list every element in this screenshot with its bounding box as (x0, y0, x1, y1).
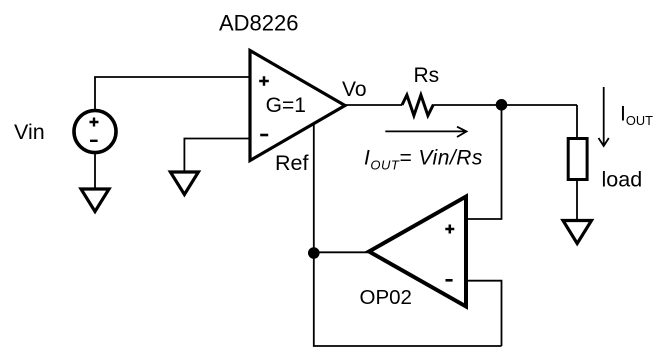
pin - (U2) (446, 279, 453, 282)
current direction arrow (385, 127, 466, 137)
svg-text:G=1: G=1 (266, 94, 306, 117)
ground (563, 221, 592, 244)
wire (94, 153, 96, 188)
label AD8226 (219, 10, 299, 35)
label IOUT (620, 102, 653, 129)
pin Ref label (275, 151, 308, 175)
svg-text:AD8226: AD8226 (219, 10, 299, 35)
wire (314, 251, 368, 253)
label load (602, 168, 643, 192)
svg-text:Vo: Vo (342, 78, 367, 101)
node Vo label (342, 78, 367, 101)
current arrow IOUT (599, 87, 609, 146)
wire (95, 77, 250, 110)
wire (466, 105, 502, 219)
resistor Rs (402, 95, 433, 116)
svg-text:Rs: Rs (414, 64, 440, 87)
svg-text:OP02: OP02 (360, 286, 412, 309)
wire (576, 181, 578, 220)
svg-text:Vin: Vin (14, 120, 45, 144)
gain label G=1 (266, 94, 306, 117)
node junction at Rs output (496, 99, 508, 111)
wire (345, 104, 402, 106)
svg-text:IOUT= Vin/Rs: IOUT= Vin/Rs (364, 147, 483, 173)
svg-text:Ref: Ref (275, 151, 308, 175)
ground (170, 172, 198, 195)
resistor load (568, 139, 587, 180)
pin + (U2) (445, 225, 454, 234)
formula IOUT = Vin/Rs (364, 147, 483, 173)
wire (184, 139, 250, 173)
wire (466, 281, 502, 346)
pin - (U1) (260, 134, 268, 137)
node junction at OP02 output / Ref (308, 247, 320, 259)
svg-text:load: load (602, 168, 643, 192)
wire (576, 105, 578, 138)
voltage source Vin (74, 111, 116, 153)
label Rs (414, 64, 440, 87)
label OP02 (360, 286, 412, 309)
wire (433, 104, 577, 106)
wire (314, 124, 502, 346)
pin + (U1) (259, 76, 269, 86)
op-amp U2 OP02 (369, 197, 466, 307)
label Vin (14, 120, 45, 144)
ground (81, 189, 109, 212)
op-amp U1 AD8226 (250, 51, 345, 161)
svg-text:IOUT: IOUT (620, 102, 653, 129)
